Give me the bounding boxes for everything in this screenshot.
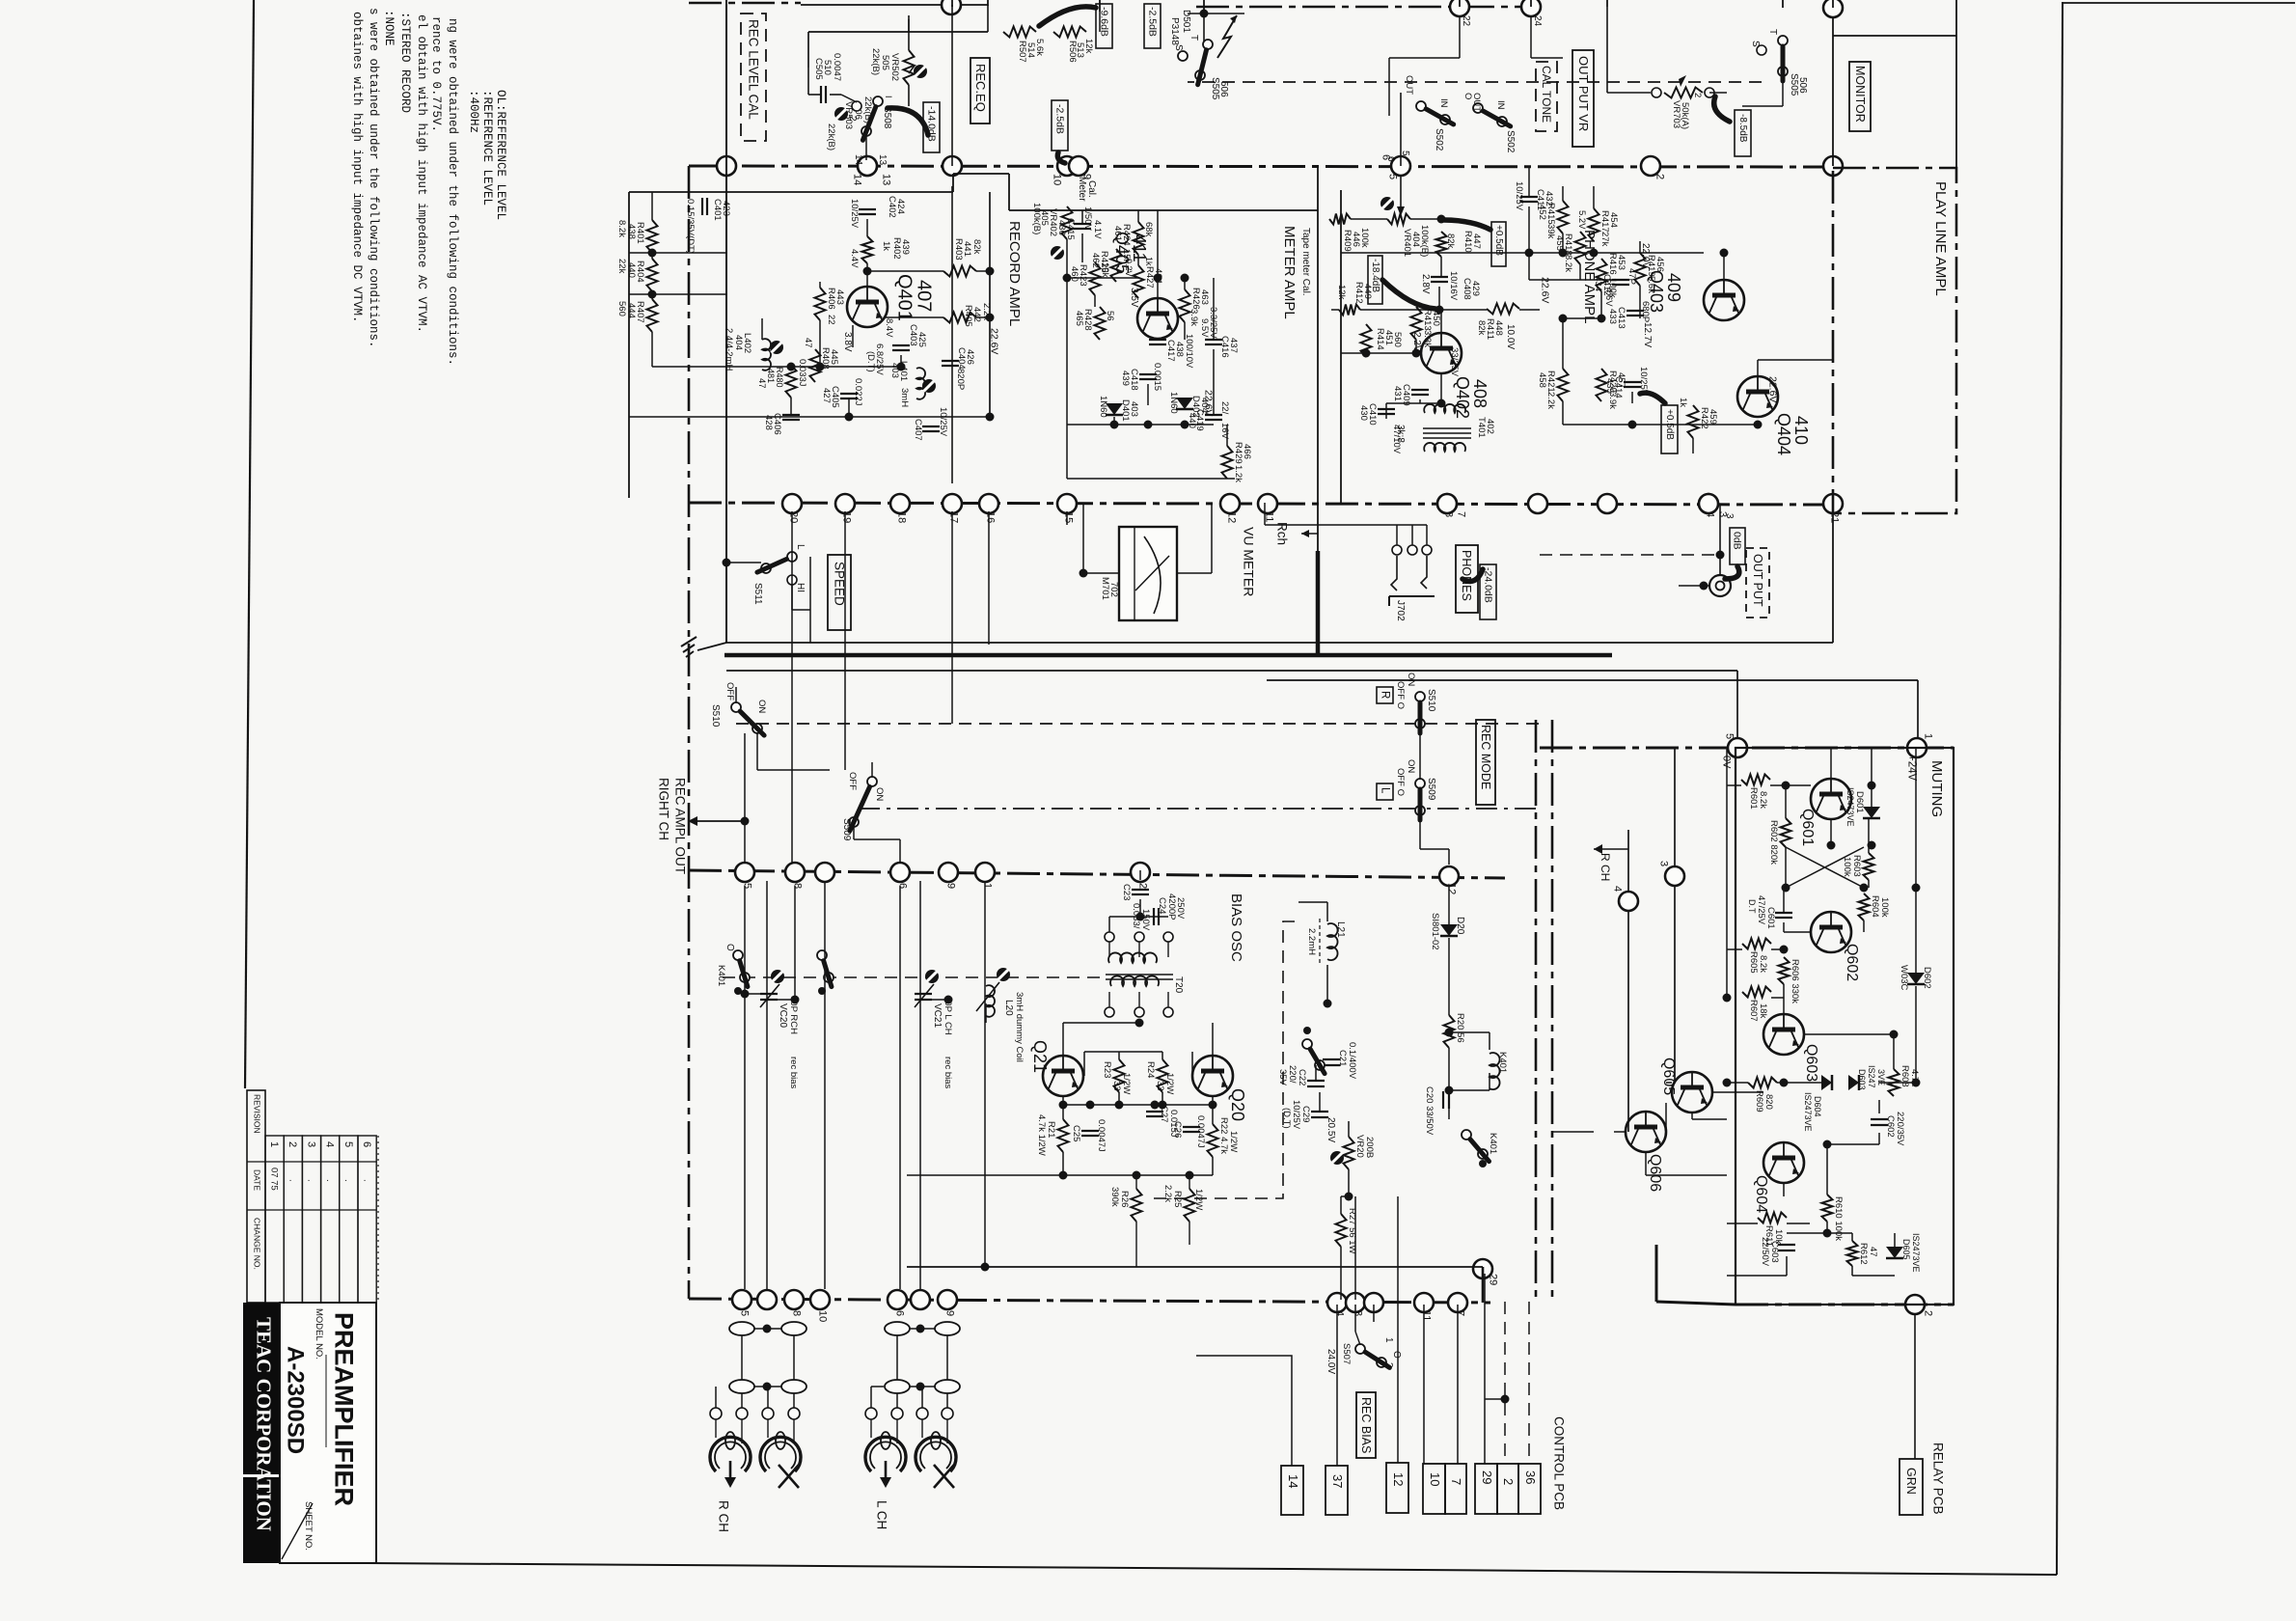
svg-text:IS247: IS247 <box>1867 1065 1876 1088</box>
svg-text:2: 2 <box>1923 1310 1934 1316</box>
svg-text:1: 1 <box>1383 1337 1394 1343</box>
svg-text:0.0015: 0.0015 <box>1152 363 1162 391</box>
svg-text:O: O <box>724 944 735 951</box>
svg-text:C407: C407 <box>913 419 923 441</box>
svg-text:47: 47 <box>803 338 813 348</box>
GRN box <box>1900 1459 1923 1515</box>
CAL TONE dashed box <box>1536 62 1557 131</box>
resistor R408 <box>810 349 821 382</box>
svg-text:.: . <box>361 1179 371 1182</box>
svg-text:T: T <box>1189 35 1199 41</box>
terminal bus A <box>717 156 736 176</box>
svg-text:5: 5 <box>1724 733 1736 739</box>
terminal 1 bus D <box>975 863 995 882</box>
coil L20 <box>986 985 995 1017</box>
erase head R <box>760 1437 801 1471</box>
terminal 11 bus B <box>1258 494 1277 513</box>
resistor R26 <box>1132 1189 1142 1222</box>
capacitor C29 <box>1311 1111 1328 1113</box>
switch S502 left <box>1416 101 1426 111</box>
branch wires R <box>716 1386 729 1387</box>
svg-text:10/25V: 10/25V <box>1514 181 1524 211</box>
terminal bus F <box>757 1290 777 1309</box>
diode D602 <box>1907 973 1925 984</box>
S510 left wires <box>735 687 737 702</box>
VU meter needle <box>1135 556 1169 591</box>
svg-text:450: 450 <box>1431 311 1441 326</box>
svg-text:C26: C26 <box>1172 1121 1183 1138</box>
playline wires <box>1528 166 1530 197</box>
svg-text:47: 47 <box>1868 1247 1878 1257</box>
svg-text:560: 560 <box>616 301 627 316</box>
terminal box 12 <box>1386 1463 1408 1513</box>
capacitor C21 <box>1323 1058 1340 1060</box>
svg-text:452: 452 <box>1537 205 1547 220</box>
resistor R402 <box>862 236 873 263</box>
svg-text:11: 11 <box>1421 1310 1433 1321</box>
svg-text:Tape meter Cal.: Tape meter Cal. <box>1300 228 1311 296</box>
svg-text:5: 5 <box>739 1310 751 1316</box>
svg-text:5.6k: 5.6k <box>1646 276 1656 293</box>
svg-text:Q604: Q604 <box>1753 1175 1769 1213</box>
terminal 5 bus A <box>1391 156 1410 176</box>
svg-text:OUT: OUT <box>1471 93 1482 112</box>
rec mode L dashed line <box>859 808 1540 810</box>
svg-text:3: 3 <box>1353 1310 1364 1316</box>
svg-text:3: 3 <box>1658 861 1670 866</box>
svg-text:.: . <box>324 1179 335 1182</box>
svg-text:436: 436 <box>1056 220 1067 235</box>
swoosh 0dB <box>1725 566 1739 579</box>
terminal 2 muting <box>1905 1295 1925 1314</box>
svg-text:(D.T): (D.T) <box>865 351 876 372</box>
swoosh -24dB <box>1462 569 1483 581</box>
svg-text:2.2k: 2.2k <box>1545 392 1556 409</box>
terminal 12 bus D <box>1439 866 1459 886</box>
svg-text::REFERENCE LEVEL: :REFERENCE LEVEL <box>480 90 494 206</box>
resistor R422 <box>1688 405 1699 438</box>
svg-text:2.4/4-2mH: 2.4/4-2mH <box>724 328 734 371</box>
svg-text:20: 20 <box>788 511 800 523</box>
svg-text:Q602: Q602 <box>1844 944 1860 981</box>
top left chainline2 <box>1188 81 1540 83</box>
terminal 10 bus A <box>1057 156 1077 176</box>
bus F chain line y=1348 <box>689 1299 1490 1303</box>
svg-text:37: 37 <box>1330 1474 1345 1488</box>
svg-text:2.2k: 2.2k <box>1162 1185 1173 1202</box>
terminal 9 bus D <box>939 863 958 882</box>
svg-text:I: I <box>884 96 893 98</box>
resistor R411 <box>1487 304 1519 315</box>
svg-text:100k: 100k <box>1879 897 1890 918</box>
vr402 wire <box>1066 166 1068 178</box>
bias d20 wires <box>1448 885 1450 924</box>
resistor R606 <box>1779 957 1790 984</box>
svg-text:4.4V: 4.4V <box>849 249 860 268</box>
J702 jack body <box>1391 556 1397 591</box>
svg-text:8.2k: 8.2k <box>616 220 627 237</box>
svg-text:1N60: 1N60 <box>1098 396 1108 418</box>
svg-text:24: 24 <box>1532 15 1543 27</box>
T20 top pins <box>1105 932 1114 942</box>
bias top rail wire <box>985 896 1063 898</box>
L21 wires <box>1326 902 1328 921</box>
svg-text:W03C: W03C <box>1899 965 1909 991</box>
top wire y=5 <box>801 4 988 6</box>
resistor R409 <box>1329 214 1351 225</box>
resistor R421 <box>1558 369 1569 401</box>
branch wires L <box>871 1386 884 1387</box>
svg-text:S509: S509 <box>1426 778 1436 801</box>
muting bottom chain line <box>1736 1304 1954 1306</box>
svg-text:4.7k 1/2W: 4.7k 1/2W <box>1036 1114 1047 1156</box>
svg-text:9: 9 <box>944 1310 956 1316</box>
terminal 8 bus F <box>784 1290 804 1309</box>
meter section top line <box>1009 209 1318 211</box>
svg-text:CAL TONE: CAL TONE <box>1540 66 1553 123</box>
terminal 2 bus A <box>1641 156 1660 176</box>
Rch arrow <box>1301 533 1318 535</box>
resistor R428 <box>1095 307 1106 340</box>
svg-text:426: 426 <box>965 349 975 365</box>
wire x=1140 r506 area <box>987 5 989 32</box>
pot VR401 <box>1387 214 1410 225</box>
muting feed v line <box>1917 680 1919 739</box>
OUT PUT dashed box <box>1746 548 1769 618</box>
bus D chain line y=904 <box>689 870 1505 878</box>
svg-text:OUT: OUT <box>1404 75 1414 95</box>
resistor R610 <box>1822 1195 1833 1222</box>
svg-text:18: 18 <box>896 511 908 523</box>
svg-text:14: 14 <box>1286 1474 1300 1488</box>
svg-text:439: 439 <box>1120 371 1131 386</box>
svg-text:560: 560 <box>1392 332 1403 347</box>
svg-text:465: 465 <box>1074 311 1084 326</box>
wire Q401 col row <box>867 270 943 272</box>
svg-text:463: 463 <box>1199 289 1210 305</box>
muting top chain line <box>1540 747 1954 750</box>
VU meter arc <box>1144 536 1161 614</box>
resistor R429 <box>1222 446 1233 479</box>
switch S509 right <box>1415 779 1425 788</box>
svg-text:2: 2 <box>287 1141 298 1147</box>
pot VR703 <box>1664 88 1703 98</box>
svg-text:RELAY PCB: RELAY PCB <box>1931 1442 1946 1515</box>
svg-text:D604: D604 <box>1813 1096 1822 1117</box>
revision table dotted continuation <box>377 1136 379 1303</box>
svg-text:(D.T): (D.T) <box>1281 1108 1292 1129</box>
transistor Q403 <box>1704 280 1744 320</box>
transistor Q606 <box>1626 1112 1666 1152</box>
phone node dots <box>1362 349 1371 358</box>
svg-text:1k: 1k <box>881 241 891 251</box>
capacitor C407 <box>922 426 940 427</box>
terminal 20 bus B <box>782 494 802 513</box>
terminal 10 bus F <box>810 1290 830 1309</box>
transformer T20 <box>1108 952 1157 963</box>
svg-text:-14.0dB: -14.0dB <box>926 106 938 142</box>
svg-text:Meter: Meter <box>1077 177 1087 202</box>
D501 lightning arrow <box>1217 15 1237 58</box>
coil L401 <box>916 368 925 399</box>
minus24dB box <box>1480 564 1496 619</box>
swoosh -2.5dB to bus <box>1057 152 1065 163</box>
svg-text:10: 10 <box>1052 174 1063 185</box>
svg-text:3: 3 <box>305 1141 316 1147</box>
resistor R609 <box>1748 1078 1777 1088</box>
pot VR20 <box>1344 1137 1354 1169</box>
svg-text:P3148: P3148 <box>1169 17 1180 45</box>
resistor R27 <box>1336 1214 1347 1247</box>
svg-text:4: 4 <box>324 1141 336 1147</box>
terminal 4 bus B <box>1699 494 1718 513</box>
svg-text:10.0V: 10.0V <box>1505 324 1516 349</box>
terminal bus D <box>815 863 834 882</box>
bias right wires <box>1315 1065 1317 1081</box>
wire x=987 mid <box>951 511 953 724</box>
svg-text:12: 12 <box>1446 883 1458 894</box>
REC MODE box <box>1476 720 1495 805</box>
resistor R416 <box>1597 259 1607 291</box>
svg-text:REVISION: REVISION <box>252 1094 261 1134</box>
svg-text:S507: S507 <box>1341 1343 1352 1364</box>
svg-text:4.1V: 4.1V <box>1092 220 1103 239</box>
output jack <box>1709 575 1731 596</box>
svg-text:22.6V: 22.6V <box>1767 376 1779 402</box>
output wires <box>1719 505 1721 575</box>
svg-text:50k(A): 50k(A) <box>1680 102 1690 129</box>
terminal 7 bus B <box>1437 494 1457 513</box>
capacitor C20 <box>1442 1091 1444 1109</box>
relay coil K401 <box>1490 1053 1500 1089</box>
svg-text:220/35V: 220/35V <box>1895 1112 1905 1146</box>
svg-text:100k(B): 100k(B) <box>1031 203 1042 234</box>
capacitor C412 <box>1612 279 1629 281</box>
rec mode R dashed line <box>736 723 1540 725</box>
resistor R507 <box>1003 27 1036 38</box>
svg-text:35V: 35V <box>1277 1069 1288 1086</box>
+0.5dB box upper <box>1491 222 1506 266</box>
svg-text:S511: S511 <box>752 583 763 605</box>
wire to box 14 <box>1196 1356 1292 1466</box>
terminal 24 <box>1521 0 1541 16</box>
capacitor C405 <box>840 393 858 395</box>
terminal 13 bus A <box>858 156 877 176</box>
TEAC black bar lower <box>243 1477 280 1563</box>
terminal 1 muting <box>1907 738 1927 757</box>
svg-text:429: 429 <box>1470 281 1481 296</box>
diode D601 <box>1863 807 1880 818</box>
terminal box 10 <box>1423 1464 1445 1514</box>
svg-text::400Hz: :400Hz <box>467 90 480 133</box>
svg-text:443: 443 <box>834 289 845 305</box>
wire Q401 collector <box>886 316 943 318</box>
svg-text:2: 2 <box>1501 1478 1516 1485</box>
resistor R406 <box>815 288 826 320</box>
svg-text:2: 2 <box>847 116 858 122</box>
capacitor C406 <box>782 414 800 416</box>
muting feed2 h line <box>726 670 1737 672</box>
resistor R604 <box>1859 893 1870 920</box>
+0.5dB box lower <box>1661 405 1678 453</box>
svg-text:5: 5 <box>1400 151 1410 156</box>
wire Q401 base <box>866 219 868 236</box>
svg-text:7: 7 <box>1456 511 1467 517</box>
terminal 5 muting <box>1728 738 1747 757</box>
resistor R612 <box>1847 1241 1858 1266</box>
terminal 9 bus A <box>1069 156 1088 176</box>
switch K401 b <box>817 950 827 960</box>
svg-text:D603: D603 <box>1857 1069 1867 1090</box>
svg-text:MUTING: MUTING <box>1928 760 1945 817</box>
svg-text:9: 9 <box>945 883 957 889</box>
svg-text:459: 459 <box>1708 409 1718 425</box>
svg-text:8.2k: 8.2k <box>1563 255 1573 272</box>
svg-text:D.T: D.T <box>1747 899 1757 914</box>
rec level cal top line <box>808 31 988 33</box>
pot VR503 <box>834 107 848 121</box>
wire 29 vertical <box>1482 1267 1485 1303</box>
SPEED box <box>828 555 851 630</box>
transistor Q402 <box>1421 333 1462 373</box>
svg-text:BIAS OSC: BIAS OSC <box>1228 893 1244 962</box>
transistor Q20 <box>1192 1056 1233 1096</box>
transistor Q603 <box>1763 1014 1804 1055</box>
resistor R24 <box>1158 1059 1168 1092</box>
capacitor C404 <box>942 360 959 362</box>
svg-text:S502: S502 <box>1434 128 1444 151</box>
VU meter right wire <box>1177 572 1212 574</box>
terminal 21 bus B <box>1823 494 1843 513</box>
svg-text:.: . <box>342 1179 353 1182</box>
svg-text:.: . <box>306 1179 316 1182</box>
switch S505 left <box>1203 40 1213 49</box>
svg-text:10: 10 <box>1428 1472 1442 1486</box>
page right border line <box>2057 2 2063 1575</box>
svg-text:438: 438 <box>1174 342 1185 357</box>
capacitor C24 <box>1153 908 1155 925</box>
terminal box 14 <box>1281 1466 1303 1515</box>
wire x=1106 meter drop <box>1066 174 1068 206</box>
svg-text:20.5V: 20.5V <box>1326 1117 1336 1142</box>
svg-text:409: 409 <box>1664 273 1683 302</box>
svg-text:ON: ON <box>1406 759 1416 773</box>
svg-text:Q21: Q21 <box>1030 1040 1050 1073</box>
svg-text:2.2mH: 2.2mH <box>1306 928 1317 955</box>
svg-text:R612: R612 <box>1858 1243 1869 1265</box>
r ch arrow muting <box>1594 848 1628 850</box>
svg-text:22k(B): 22k(B) <box>870 48 881 75</box>
terminal 6 bus D <box>890 863 910 882</box>
svg-text:2: 2 <box>1692 93 1703 97</box>
svg-text:3: 3 <box>1724 513 1735 519</box>
switch K401 right <box>1462 1130 1471 1140</box>
svg-text:Q20: Q20 <box>1228 1088 1247 1121</box>
-2.5dB box mid <box>1052 100 1068 151</box>
svg-text:VC20: VC20 <box>778 1003 788 1028</box>
svg-text:8.2k: 8.2k <box>1758 791 1768 809</box>
swoosh +0.5dB upper <box>1444 220 1490 230</box>
resistor R608 <box>1889 1069 1900 1096</box>
svg-text:3mH: 3mH <box>899 388 910 407</box>
svg-text:8: 8 <box>792 883 804 889</box>
resistor R425 <box>1111 249 1122 282</box>
terminal 8 bus B <box>1437 494 1457 513</box>
svg-text:448: 448 <box>1493 320 1504 336</box>
svg-text:13: 13 <box>881 174 892 185</box>
revision table header column <box>247 1090 265 1303</box>
svg-text:27k: 27k <box>1599 232 1610 247</box>
svg-text:0dB: 0dB <box>1732 532 1743 550</box>
S511 wires <box>726 562 761 563</box>
vc wires <box>745 993 769 995</box>
svg-text:36: 36 <box>1523 1470 1538 1484</box>
svg-text:13: 13 <box>877 154 888 166</box>
resistor R418 <box>1575 232 1586 264</box>
svg-text:24.0V: 24.0V <box>1326 1349 1336 1374</box>
bias dots <box>1135 1019 1144 1028</box>
switch S511 <box>787 552 797 562</box>
svg-text:REC LEVEL CAL: REC LEVEL CAL <box>747 19 761 120</box>
terminal 5 bus F <box>732 1290 752 1309</box>
swoosh to -14dB <box>888 108 928 135</box>
trimmer VC20 <box>760 993 778 995</box>
svg-text:250V: 250V <box>1175 897 1186 920</box>
-9.6dB box <box>1096 4 1112 48</box>
svg-text:K401: K401 <box>1488 1133 1498 1154</box>
MUTING solid box <box>1736 748 1954 1305</box>
svg-text:33/25V: 33/25V <box>1449 347 1460 377</box>
phone mid node <box>1437 215 1446 224</box>
svg-text:T: T <box>1767 29 1778 35</box>
bus A chain line y=172 <box>689 166 1833 167</box>
svg-text:OUT PUT VR: OUT PUT VR <box>1576 56 1591 131</box>
svg-text:OFF: OFF <box>847 772 858 790</box>
resistor R412 <box>1339 305 1360 316</box>
resistor R401 <box>647 220 658 253</box>
svg-text:442: 442 <box>971 307 982 322</box>
svg-text:s were obtained under the foll: s were obtained under the following cond… <box>367 8 380 348</box>
svg-text:441: 441 <box>962 241 972 257</box>
svg-text:33: 33 <box>1155 1081 1165 1091</box>
PHONES box <box>1456 545 1478 613</box>
svg-text:HI: HI <box>795 583 806 592</box>
feedthrough ovals row2 <box>729 1380 754 1393</box>
svg-text:1/2W: 1/2W <box>1193 1189 1204 1210</box>
svg-text:T20: T20 <box>1173 976 1184 994</box>
svg-text:C24: C24 <box>1157 897 1167 914</box>
svg-text:454: 454 <box>1608 212 1619 228</box>
terminal box 37 <box>1326 1466 1348 1515</box>
phone wires <box>1341 352 1421 354</box>
capacitor C602 <box>1871 1118 1888 1120</box>
svg-text:.: . <box>287 1179 298 1182</box>
svg-text:6: 6 <box>894 1310 906 1316</box>
S509 wires <box>829 770 831 782</box>
wire x=876 <box>844 511 846 770</box>
svg-text:D20: D20 <box>1455 917 1465 935</box>
capacitor C601 <box>1775 912 1792 914</box>
top chain line right <box>1196 6 1540 9</box>
svg-text:1.2k: 1.2k <box>1233 465 1244 482</box>
muting out terminal 3 <box>1665 866 1684 886</box>
left pcb chain vertical <box>688 166 691 1299</box>
svg-text:7: 7 <box>1449 1478 1463 1485</box>
resistor R607 <box>1742 987 1771 998</box>
svg-text:A-2300SD: A-2300SD <box>282 1346 308 1454</box>
svg-text:TEAC CORPORATION: TEAC CORPORATION <box>252 1317 275 1531</box>
svg-text:ON: ON <box>756 700 767 713</box>
